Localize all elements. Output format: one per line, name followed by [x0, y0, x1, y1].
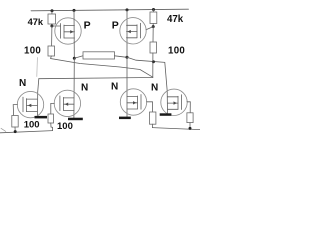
- wire Q4 gate to R6: [51, 103, 55, 114]
- wire node B to Q6 drain (right drop): [127, 57, 168, 114]
- resistor R8 100 (Q6 gate): [187, 113, 193, 123]
- wire gate node to Q1 gate: [52, 25, 61, 27]
- wire Q3 drain vertical: [38, 79, 39, 117]
- svg-text:47k: 47k: [167, 14, 184, 25]
- svg-text:47k: 47k: [28, 17, 44, 27]
- transistor Q5 N-MOSFET 3 (mirrored): [120, 89, 146, 115]
- node top rail junction at Q2 drain: [126, 8, 129, 11]
- wire P2 gate node down to R4: [152, 27, 154, 42]
- wire R4 down X2 vertical: [152, 53, 154, 78]
- svg-text:N: N: [151, 83, 158, 94]
- wire load to node B: [115, 56, 128, 58]
- resistor R5 100 (Q3 gate): [12, 116, 18, 128]
- svg-text:N: N: [81, 83, 88, 94]
- wire rail to R1: [51, 11, 53, 14]
- svg-text:P: P: [84, 20, 91, 32]
- resistor R6 100 (Q4 gate): [48, 114, 54, 123]
- wire gate node down to R2: [51, 26, 53, 46]
- wire bottom-left rail end tick: [1, 128, 6, 131]
- transistor Q4 N-MOSFET 2: [54, 90, 80, 116]
- wire Q1 drain vertical: [73, 10, 75, 58]
- resistor R3 47k right: [150, 12, 157, 24]
- ground bar Q5 source: [119, 117, 131, 120]
- wire node A down to Q4 drain: [73, 58, 75, 118]
- wire R6 to bottom-left rail: [51, 123, 53, 131]
- node top rail junction at Q1 drain: [73, 9, 76, 12]
- transistor Q2 P-MOSFET right (mirrored): [120, 18, 146, 44]
- wire R2 to cross-net (sloped): [51, 56, 153, 77]
- wire R3 to P2 gate node: [152, 24, 154, 27]
- node top rail junction at R3: [152, 8, 155, 11]
- ground bar Q6 source: [160, 113, 172, 116]
- wire R1 to gate node: [51, 24, 53, 26]
- ground bar Q4 source: [68, 118, 83, 121]
- node crossing junction on X2: [152, 60, 155, 63]
- resistor R4 100 right: [150, 42, 157, 53]
- svg-text:N: N: [111, 82, 118, 93]
- svg-text:P: P: [112, 20, 119, 32]
- svg-text:N: N: [19, 78, 26, 89]
- wire R8 to bottom-right rail: [189, 123, 191, 129]
- wire node B down to Q5 drain: [126, 57, 128, 117]
- wire bottom-left rail: [0, 131, 53, 133]
- resistor R1 47k left: [48, 14, 56, 24]
- wire Q5 gate to R7: [147, 102, 153, 112]
- wire Q6 gate to R8: [187, 102, 190, 113]
- wire bottom-right rail: [152, 128, 200, 130]
- svg-text:100: 100: [24, 119, 40, 130]
- ground bar Q3 source: [35, 116, 48, 119]
- node A left output junction: [73, 57, 76, 60]
- node top rail junction at R1: [51, 9, 54, 12]
- resistor load RL horizontal: [83, 52, 115, 59]
- wire V+ top rail: [31, 9, 189, 11]
- wire rail to R3: [152, 10, 154, 13]
- svg-text:100: 100: [168, 46, 185, 57]
- resistor R7 100 (Q5 gate): [150, 112, 156, 124]
- wire R7 to bottom-right rail: [151, 124, 153, 127]
- transistor Q6 N-MOSFET 4 (mirrored): [161, 89, 187, 115]
- node B right output junction: [126, 56, 129, 59]
- node P1 gate junction: [50, 25, 53, 28]
- wire R5 to bottom-left rail: [14, 127, 16, 132]
- wire Q3 gate to R5: [13, 105, 17, 116]
- transistor Q1 P-MOSFET left: [55, 18, 81, 44]
- transistor Q3 N-MOSFET 1: [17, 91, 43, 117]
- wire faint scratch mark: [36, 58, 39, 77]
- wire X2 across to Q3 drain: [39, 78, 153, 79]
- svg-text:100: 100: [24, 46, 41, 57]
- resistor R2 100 left: [48, 46, 55, 56]
- wire gate node to Q2 gate: [146, 27, 153, 30]
- svg-text:100: 100: [57, 121, 73, 132]
- wire Q2 drain vertical: [126, 10, 128, 57]
- wire node A to load: [74, 56, 83, 59]
- node bottom-left rail junction: [14, 130, 17, 133]
- node bottom-right rail junction: [189, 127, 192, 130]
- node P2 gate junction: [152, 25, 155, 28]
